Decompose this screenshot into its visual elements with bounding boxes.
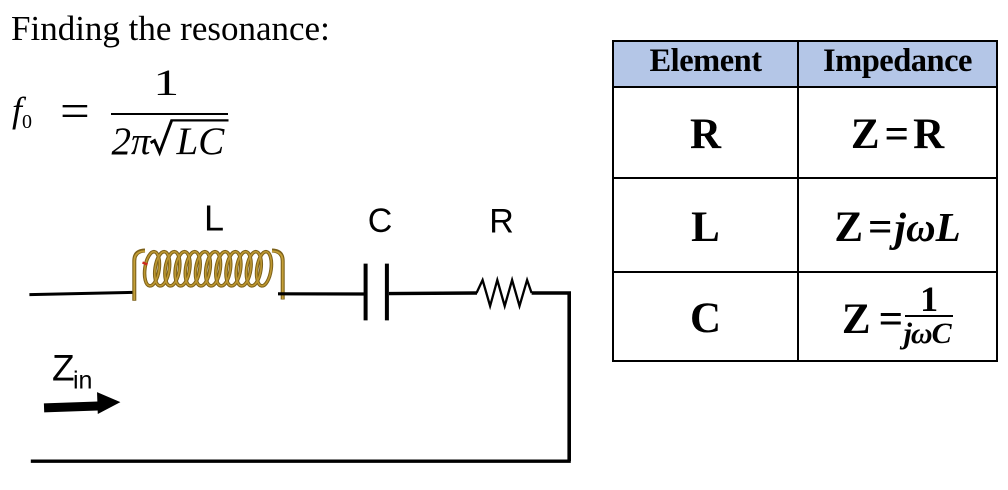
denominator LC — [177, 122, 225, 161]
impedance table — [612, 40, 998, 362]
wire: coil to capacitor — [278, 292, 366, 295]
wire: bottom return — [31, 460, 571, 463]
svg-text:L: L — [204, 198, 224, 239]
table cell R — [613, 87, 798, 178]
capacitor C right plate — [385, 264, 389, 321]
formula f0 = 1/(2 pi sqrt(LC)) — [0, 0, 300, 170]
wire: resistor to right corner, down right side — [532, 293, 570, 461]
wire: capacitor to resistor — [389, 291, 477, 295]
table cell Z = 1/(jwC) — [798, 272, 997, 361]
arrow Zin — [44, 391, 121, 416]
inductor L coil loops — [143, 251, 274, 287]
resistor R zigzag — [477, 280, 532, 306]
table cell C — [613, 272, 798, 361]
table cell Z = R — [798, 87, 997, 178]
inductor L coil left lead — [134, 251, 145, 301]
svg-text:R: R — [489, 203, 514, 241]
svg-text:in: in — [73, 367, 92, 395]
title "Finding the resonance:" — [11, 9, 330, 49]
wire: left input lead — [29, 292, 133, 294]
table header Impedance — [798, 41, 997, 87]
table cell L — [613, 178, 798, 272]
table header Element — [613, 41, 798, 87]
red mark on coil — [143, 263, 148, 265]
svg-text:C: C — [368, 202, 393, 240]
denominator 2 pi — [112, 122, 151, 161]
inductor L coil right lead — [272, 251, 283, 300]
fraction bar — [111, 113, 228, 115]
table cell Z = jwL — [798, 178, 997, 272]
capacitor C left plate — [364, 264, 368, 321]
f0 — [12, 89, 32, 134]
radical sign with vinculum — [148, 116, 234, 158]
svg-text:Z: Z — [52, 348, 75, 389]
equals sign — [60, 84, 90, 139]
numerator 1 — [109, 62, 224, 105]
